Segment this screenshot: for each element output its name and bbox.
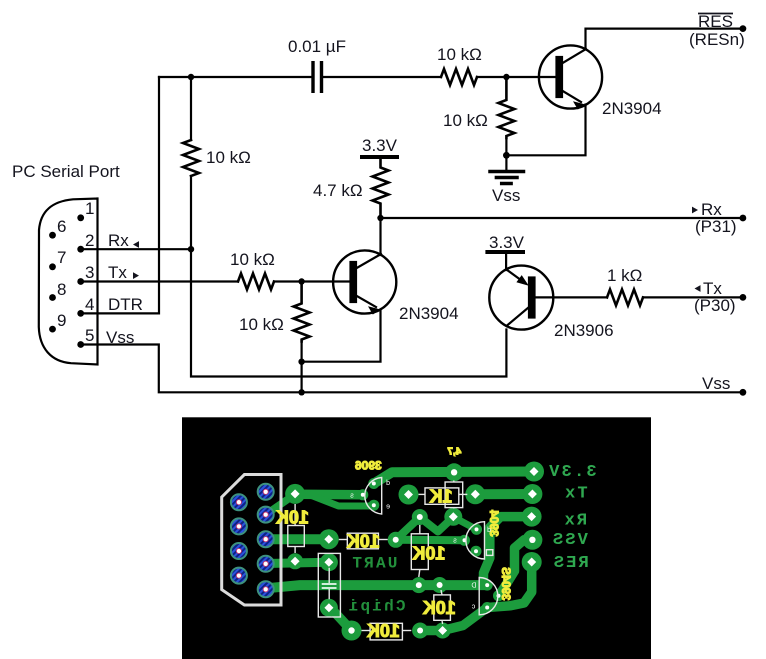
transistor Q3 2N3906 circle: [489, 266, 553, 330]
resistor outline 10K0: [288, 526, 305, 547]
svg-text:Vss: Vss: [106, 328, 134, 347]
svg-text:3906: 3906: [355, 459, 382, 473]
transistor Q2 emitter diagonal: [355, 295, 376, 307]
svg-text:s: s: [453, 538, 457, 545]
resistor R1 10k horizontal top: [441, 69, 477, 85]
trace 3.3V top rail: [374, 472, 534, 484]
resistor outline 10K2 UART: [411, 534, 428, 570]
wire Q3 emitter from 3.3V: [505, 252, 507, 270]
pad Rx label: [522, 507, 542, 527]
capacitor C1 plates: [313, 61, 322, 93]
svg-text:10 kΩ: 10 kΩ: [239, 315, 284, 334]
wire R4 bottom to Vss: [301, 342, 303, 393]
svg-text:10 kΩ: 10 kΩ: [443, 111, 488, 130]
svg-text:10K: 10K: [367, 621, 400, 641]
svg-text:Vss: Vss: [492, 186, 520, 205]
svg-text:5: 5: [85, 326, 94, 345]
wire Q2 emitter to node: [302, 311, 381, 362]
transistor Q1 2N3904 circle: [539, 45, 602, 108]
trace pad5 long row: [266, 585, 487, 588]
pad 3.3V label: [524, 462, 544, 482]
trace 3904S to bottom pad: [443, 608, 488, 631]
svg-text:2N3904: 2N3904: [602, 99, 662, 118]
svg-text:d: d: [386, 480, 390, 487]
wire Q2 collector up: [379, 218, 381, 255]
transistor Q1 emitter diagonal: [561, 90, 581, 102]
trace pad4 row: [266, 562, 329, 563]
transistor Q3 base bar: [529, 278, 535, 318]
pad bottom left: [342, 621, 362, 641]
svg-text:Tx: Tx: [108, 263, 127, 282]
square marker 3904 pin: [486, 550, 492, 556]
resistor outline 10K3: [370, 623, 402, 640]
svg-text:0.01 µF: 0.01 µF: [288, 37, 346, 56]
pad 10K3 right: [412, 623, 428, 639]
trace branch to 3906 emitter: [309, 495, 370, 507]
pin 9 dot: [49, 326, 56, 333]
svg-text:2: 2: [85, 231, 94, 250]
trace bottom pads: [420, 626, 443, 636]
wire resistor to Q1 base: [477, 76, 557, 78]
wire Vss pin5: [81, 345, 743, 393]
svg-text:c: c: [471, 604, 475, 611]
pin 4 dot: [77, 310, 84, 317]
svg-text:8: 8: [57, 280, 66, 299]
pad B 1K left: [399, 485, 419, 505]
pad cap top: [320, 553, 338, 571]
pin 7 dot: [49, 263, 56, 270]
svg-text:10 kΩ: 10 kΩ: [437, 45, 482, 64]
svg-text:9: 9: [57, 311, 66, 330]
capacitor outline: [318, 553, 340, 617]
svg-text:4,7: 4,7: [447, 447, 461, 458]
arrow Tx pin label: [133, 272, 139, 279]
white pad centers dots: [451, 469, 457, 475]
wire Q3 base to 1k: [535, 296, 608, 298]
transistor Q2 emitter arrow: [368, 306, 381, 314]
transistor Q2 2N3904 circle: [333, 250, 396, 313]
junction node Q2 emitter: [298, 359, 304, 365]
trace 10K1 pad to 3904 mid: [396, 536, 465, 545]
svg-text:10 kΩ: 10 kΩ: [206, 148, 251, 167]
svg-text:d: d: [487, 527, 491, 534]
pin 3 dot: [77, 278, 84, 285]
resistor R2 10k vertical x191: [183, 140, 199, 176]
pad RES label: [522, 552, 542, 572]
wire Rx pin2: [81, 248, 191, 250]
svg-text:Vss: Vss: [702, 374, 730, 393]
pad 1K right: [465, 484, 485, 504]
svg-text:RES: RES: [698, 12, 733, 31]
junction node pin2 Rx: [188, 246, 194, 252]
resistor outline 10K1: [347, 533, 378, 549]
power bar 3.3V top: [362, 155, 397, 159]
wire DTR vertical: [81, 77, 159, 313]
pad 10K1 right: [388, 532, 404, 548]
PCB photo group: [182, 417, 651, 659]
yellow silkscreen labels (mirrored): [276, 447, 511, 642]
overline RES: [698, 13, 733, 15]
junction node Q1 base: [503, 74, 509, 80]
svg-text:PC Serial Port: PC Serial Port: [12, 162, 120, 181]
pads transistor 3906: [368, 478, 379, 489]
wire Rx line P31: [381, 217, 743, 219]
transistor outline 3906: [365, 478, 382, 515]
trace RES down elbow: [487, 562, 532, 608]
resistor outline 10K4: [434, 595, 451, 620]
pad A: [285, 484, 305, 504]
pad VSS label: [522, 530, 542, 550]
wire top DTR to cap: [159, 76, 311, 78]
junction node Rx P31: [377, 215, 383, 221]
svg-text:2N3904: 2N3904: [399, 304, 459, 323]
node Rx terminal: [740, 215, 747, 222]
green pads with centers: [285, 462, 544, 641]
svg-text:10K: 10K: [412, 544, 445, 564]
arrow Tx right label: [695, 285, 701, 292]
pad Tx label: [522, 484, 542, 504]
trace Tx row: [475, 489, 532, 499]
wire node vertical x191 lower: [191, 176, 506, 377]
transistor Q3 collector diagonal: [506, 307, 529, 326]
green silkscreen net labels (mirrored): [346, 463, 596, 616]
pads transistor 3904 upper: [471, 524, 482, 535]
pad 10K4 bottom: [435, 623, 451, 639]
svg-text:e: e: [386, 504, 390, 511]
DB9 white outline on PCB: [222, 475, 281, 606]
resistor R3 10k horizontal Tx: [238, 274, 274, 290]
svg-text:3: 3: [85, 263, 94, 282]
pin 5 dot: [77, 341, 84, 348]
resistor R7 1k horizontal: [607, 289, 643, 305]
pad 4.7 top: [445, 463, 463, 481]
junction node Vss rail: [298, 389, 304, 395]
pin 2 dot: [77, 246, 84, 253]
node RES terminal: [740, 25, 747, 32]
transistor Q1 emitter arrow: [573, 101, 586, 109]
svg-text:10K: 10K: [276, 508, 309, 528]
junction node Q2 base: [298, 278, 304, 284]
ground symbol: [490, 172, 524, 184]
pad row585 a: [411, 577, 427, 593]
svg-text:Chipi: Chipi: [346, 598, 405, 616]
svg-text:Rx: Rx: [108, 231, 129, 250]
svg-text:7: 7: [57, 248, 66, 267]
transistor Q2 collector diagonal: [355, 254, 381, 269]
svg-text:3.3V: 3.3V: [547, 463, 597, 482]
trace pad2 to pad A: [266, 494, 295, 514]
transistor Q3 emitter arrow: [516, 275, 528, 286]
pin 1 dot: [77, 214, 84, 221]
pad R0 bottom: [287, 553, 303, 569]
transistor outline 3904 upper: [466, 522, 485, 559]
trace pad3 to pad C: [266, 534, 329, 544]
pad 4.7 bottom: [444, 508, 462, 526]
svg-text:Tx: Tx: [563, 485, 588, 504]
resistor R4 10k vertical pulldown: [294, 282, 310, 342]
power bar 3.3V second: [487, 250, 523, 254]
svg-text:3.3V: 3.3V: [489, 233, 525, 252]
wire cap to resistor: [323, 76, 441, 78]
trace Rx right elbow: [484, 517, 532, 581]
resistor outline 1K: [425, 488, 459, 504]
svg-text:s: s: [350, 493, 354, 500]
svg-text:10 kΩ: 10 kΩ: [230, 250, 275, 269]
trace V dip: [420, 517, 454, 532]
silkscreen white outlines: [288, 478, 498, 640]
trace to 3904 top pad: [453, 517, 476, 529]
pad V apex: [412, 509, 428, 525]
wire Tx line P30: [643, 296, 743, 298]
svg-text:(P30): (P30): [694, 296, 736, 315]
svg-text:3.3V: 3.3V: [362, 136, 398, 155]
transistor outline 3904S: [479, 578, 498, 615]
wire Q1 emitter down: [506, 105, 585, 156]
trace 10K1 right to V apex: [396, 517, 420, 540]
trace cap to bottom pad: [329, 608, 352, 631]
node Vss terminal: [740, 389, 747, 396]
resistor R5 4.7k vertical: [373, 158, 389, 218]
svg-text:1: 1: [85, 199, 94, 218]
wire Tx pin3: [81, 280, 238, 282]
junction node top-left: [188, 74, 194, 80]
junction node ground: [503, 152, 510, 159]
transistor Q2 base bar: [351, 262, 357, 302]
transistor Q1 collector diagonal: [561, 49, 586, 64]
svg-text:1K: 1K: [429, 487, 452, 507]
node Tx terminal: [740, 294, 747, 301]
white pad centers diamonds: [291, 467, 539, 635]
trace VSS right elbow: [499, 540, 533, 596]
wire R6 to ground: [505, 140, 507, 170]
pin 8 dot: [49, 294, 56, 301]
tiny white pin labels: [350, 480, 491, 611]
svg-text:D: D: [471, 583, 476, 590]
svg-text:3904S: 3904S: [499, 567, 511, 601]
svg-text:4.7 kΩ: 4.7 kΩ: [313, 181, 363, 200]
arrow Rx right label: [692, 207, 698, 214]
pad cap bottom: [320, 599, 338, 617]
wire Q1 collector to RES: [586, 29, 743, 49]
wire R3 to Q2 base: [274, 280, 351, 282]
svg-text:10K: 10K: [423, 598, 456, 618]
DB9 blue pads: [231, 484, 274, 598]
svg-text:1 kΩ: 1 kΩ: [607, 266, 642, 285]
svg-text:4: 4: [85, 295, 94, 314]
svg-text:VSS: VSS: [551, 531, 588, 550]
trace pad A to Q 3906: [295, 489, 363, 499]
svg-text:(P31): (P31): [695, 217, 737, 236]
PCB board background: [182, 417, 651, 659]
resistor outline 4.7: [445, 482, 463, 508]
svg-text:Rx: Rx: [562, 512, 587, 531]
transistor Q1 base bar: [557, 57, 563, 97]
svg-text:6: 6: [57, 217, 66, 236]
transistor Q3 emitter diagonal: [507, 270, 522, 281]
svg-text:DTR: DTR: [108, 295, 143, 314]
pad C: [319, 529, 339, 549]
svg-text:UART: UART: [350, 555, 397, 573]
svg-text:RES: RES: [552, 554, 589, 573]
svg-text:2N3906: 2N3906: [554, 321, 614, 340]
arrow Rx pin label: [133, 241, 139, 248]
resistor R6 10k vertical base divider: [498, 77, 514, 138]
svg-text:(RESn): (RESn): [689, 30, 745, 49]
pads transistor 3904S: [482, 580, 493, 591]
pad row585 b: [432, 577, 448, 593]
pin 6 dot: [49, 232, 56, 239]
wire node vertical x191 upper: [190, 77, 192, 140]
svg-text:10K: 10K: [347, 532, 380, 552]
DB9 connector outline: [39, 199, 98, 365]
